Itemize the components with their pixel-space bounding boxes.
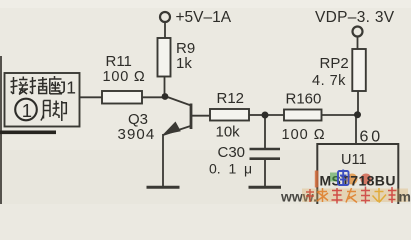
svg-text:1: 1	[22, 100, 32, 121]
wire R160 to node C	[322, 114, 358, 116]
watermark warm band under flower row	[302, 189, 408, 203]
svg-text:0. 1 μ: 0. 1 μ	[209, 161, 252, 177]
watermark green blob over S	[330, 173, 338, 182]
scan artifact: left edge dark line	[0, 56, 2, 204]
svg-text:RP2: RP2	[320, 55, 349, 72]
svg-text:1k: 1k	[176, 55, 192, 72]
wire base to R12	[191, 115, 210, 117]
svg-text:100 Ω: 100 Ω	[282, 127, 326, 143]
wire node C to U11 pin 60	[355, 115, 357, 145]
svg-text:R12: R12	[217, 90, 245, 107]
resistor R11 body	[102, 91, 142, 104]
terminal +5V-1A circle	[160, 12, 170, 22]
transistor Q3 bar	[190, 104, 193, 130]
node A junction dot	[162, 93, 169, 100]
watermark blue glyph over T	[338, 170, 349, 186]
svg-text:U11: U11	[341, 152, 367, 168]
ground bar (emitter)	[147, 186, 180, 189]
char 插	[30, 77, 47, 94]
wire terminal to R9	[164, 21, 166, 38]
svg-text:J1: J1	[58, 78, 76, 98]
svg-text:100 Ω: 100 Ω	[103, 69, 146, 85]
svg-text:60: 60	[360, 129, 383, 146]
wire R12 to node B	[249, 114, 265, 116]
wire RP2 to node C	[357, 91, 359, 115]
watermark colourful characters row	[306, 187, 397, 204]
svg-text:3904: 3904	[118, 126, 156, 143]
transistor Q3 emitter arrow	[163, 122, 181, 136]
wire emitter down	[162, 134, 164, 187]
label 接插座J1 (hand-drawn CJK strokes)	[11, 76, 63, 95]
svg-text:C30: C30	[218, 144, 246, 161]
char 座	[49, 76, 62, 94]
svg-text:m: m	[399, 189, 411, 205]
scan artifact: dark bar bottom-left of J1 box	[0, 131, 56, 135]
node C junction dot	[354, 111, 361, 118]
pin 1 circled	[15, 99, 37, 121]
resistor R9 body	[158, 38, 171, 77]
connector J1 box	[5, 73, 80, 127]
resistor R12 body	[210, 109, 249, 121]
svg-text:R160: R160	[286, 91, 322, 108]
wire R11 to node A	[142, 96, 165, 98]
char 脚 (hand-drawn)	[41, 101, 67, 122]
node B junction dot	[262, 112, 269, 119]
wire J1 to R11	[80, 96, 103, 98]
svg-text:VDP–3. 3V: VDP–3. 3V	[315, 9, 395, 26]
wire terminal to RP2	[357, 36, 359, 49]
transistor Q3 collector diagonal	[166, 97, 191, 106]
ground bar (C30)	[249, 186, 282, 189]
svg-text:R11: R11	[106, 53, 132, 70]
wire R9 to node A	[164, 77, 166, 98]
char 接	[11, 77, 29, 95]
watermark flower behind 7	[347, 174, 358, 185]
capacitor C30 plates	[250, 148, 281, 151]
wire node B down to C30	[264, 115, 266, 148]
watermark flower behind 8	[361, 174, 372, 185]
resistor R160 body	[284, 110, 322, 121]
svg-text:10k: 10k	[216, 124, 241, 141]
wire node B to R160	[265, 114, 284, 116]
svg-text:4. 7k: 4. 7k	[312, 73, 346, 89]
wire C30 to ground	[264, 160, 266, 187]
svg-text:+5V–1A: +5V–1A	[176, 9, 232, 26]
transistor Q3 emitter diagonal	[163, 126, 191, 135]
terminal VDP-3.3V circle	[353, 27, 363, 37]
resistor RP2 body	[352, 49, 366, 91]
watermark red mark left of M	[315, 171, 319, 188]
IC U11 box	[317, 144, 398, 206]
